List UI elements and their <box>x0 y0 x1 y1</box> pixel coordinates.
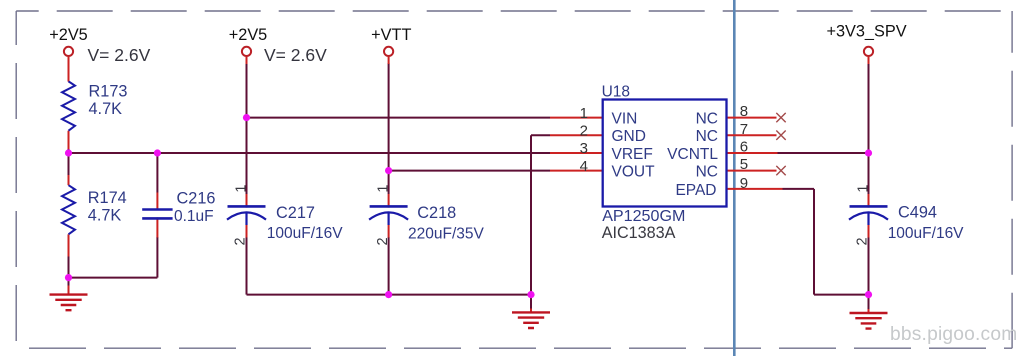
svg-text:bbs.pigoo.com: bbs.pigoo.com <box>890 324 1017 345</box>
svg-text:0.1uF: 0.1uF <box>174 208 214 225</box>
svg-text:R173: R173 <box>89 83 128 101</box>
svg-text:C217: C217 <box>276 204 315 222</box>
svg-text:+2V5: +2V5 <box>49 26 87 44</box>
svg-text:7: 7 <box>740 121 748 138</box>
svg-text:V= 2.6V: V= 2.6V <box>88 45 151 65</box>
svg-text:VIN: VIN <box>612 111 638 128</box>
svg-text:5: 5 <box>740 156 748 173</box>
svg-text:100uF/16V: 100uF/16V <box>267 225 343 242</box>
svg-text:NC: NC <box>696 111 718 128</box>
svg-text:1: 1 <box>580 105 588 122</box>
svg-text:C216: C216 <box>177 189 216 207</box>
svg-text:EPAD: EPAD <box>675 182 716 199</box>
svg-text:1: 1 <box>856 185 872 193</box>
svg-text:+2V5: +2V5 <box>229 26 267 44</box>
svg-text:4: 4 <box>580 158 588 175</box>
svg-text:1: 1 <box>376 185 392 193</box>
svg-text:R174: R174 <box>88 189 127 207</box>
svg-text:100uF/16V: 100uF/16V <box>888 225 964 242</box>
svg-text:2: 2 <box>375 237 391 245</box>
svg-text:GND: GND <box>612 128 646 145</box>
svg-text:220uF/35V: 220uF/35V <box>408 226 484 243</box>
svg-text:C494: C494 <box>898 204 937 222</box>
svg-text:+VTT: +VTT <box>371 26 411 44</box>
svg-text:9: 9 <box>740 175 748 192</box>
svg-text:NC: NC <box>696 128 718 145</box>
svg-text:C218: C218 <box>417 204 456 222</box>
svg-text:+3V3_SPV: +3V3_SPV <box>826 22 906 40</box>
svg-text:VOUT: VOUT <box>612 164 656 181</box>
svg-text:NC: NC <box>696 164 718 181</box>
svg-text:2: 2 <box>233 237 249 245</box>
svg-text:2: 2 <box>580 122 588 139</box>
svg-text:2: 2 <box>855 237 871 245</box>
svg-text:8: 8 <box>740 103 748 120</box>
svg-text:V= 2.6V: V= 2.6V <box>264 45 327 65</box>
svg-text:3: 3 <box>580 140 588 157</box>
svg-text:1: 1 <box>234 185 250 193</box>
svg-text:6: 6 <box>740 139 748 156</box>
svg-text:AIC1383A: AIC1383A <box>602 224 676 242</box>
svg-text:VREF: VREF <box>612 146 653 163</box>
svg-text:U18: U18 <box>602 83 630 100</box>
svg-text:AP1250GM: AP1250GM <box>602 207 685 225</box>
svg-text:VCNTL: VCNTL <box>667 146 718 163</box>
svg-text:4.7K: 4.7K <box>89 100 123 118</box>
svg-text:4.7K: 4.7K <box>88 206 122 224</box>
